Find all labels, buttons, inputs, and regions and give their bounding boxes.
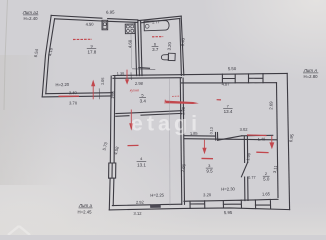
svg-text:2.69: 2.69 — [268, 101, 273, 110]
svg-text:кухня: кухня — [130, 88, 139, 92]
svg-text:3.4: 3.4 — [140, 98, 147, 103]
toilet — [168, 53, 175, 60]
svg-text:3.40: 3.40 — [69, 90, 78, 95]
main house right wall inner — [277, 83, 279, 198]
bathroom block left wall — [141, 21, 142, 76]
svg-text:Н=2.40: Н=2.40 — [24, 16, 39, 21]
annex a1 left wall outer — [42, 15, 51, 97]
main house left wall outer — [109, 76, 111, 210]
red arrow room2 (down) — [271, 136, 273, 143]
annex a1 left wall inner — [46, 19, 55, 94]
svg-text:3.7: 3.7 — [152, 47, 159, 52]
red arrow room3 (down) — [203, 140, 205, 148]
svg-text:5.95: 5.95 — [224, 210, 233, 215]
door leaf between room7 and room3 — [218, 136, 242, 140]
window W1 top wall — [222, 74, 235, 83]
svg-text:Лит А: Лит А — [303, 68, 318, 73]
svg-text:13.4: 13.4 — [224, 109, 233, 114]
svg-text:1.48: 1.48 — [258, 136, 266, 141]
svg-text:4.60: 4.60 — [127, 39, 132, 48]
annex a1 top wall outer — [51, 15, 138, 20]
svg-text:Н=2.25: Н=2.25 — [150, 192, 164, 197]
stove — [125, 24, 135, 34]
bathroom block right wall inner — [180, 19, 182, 76]
paper fold line left edge — [4, 0, 8, 110]
main house top wall inner right — [182, 82, 277, 84]
svg-text:3.20: 3.20 — [203, 192, 212, 197]
bottom window W4b — [255, 200, 270, 209]
annex a1 bottom wall inner — [46, 93, 112, 94]
annex a1 top wall inner — [55, 19, 138, 23]
dim tick line at bathroom left — [132, 68, 155, 71]
main house top wall inner left — [113, 77, 182, 80]
svg-text:Н=2.80: Н=2.80 — [304, 74, 319, 79]
bottom window W4 — [223, 200, 241, 208]
wall room3|room2 lower — [245, 177, 248, 201]
room7 bottom wall upper line — [185, 134, 273, 137]
svg-text:2.92: 2.92 — [136, 200, 145, 205]
svg-text:etagi: etagi — [131, 112, 201, 136]
svg-text:4.50: 4.50 — [86, 22, 95, 27]
bathtub — [144, 21, 169, 31]
svg-text:Н=2.45: Н=2.45 — [78, 209, 93, 214]
interior wall room5/room4 lower line — [116, 113, 182, 116]
bottom window W3 — [190, 201, 205, 208]
svg-text:3.20: 3.20 — [167, 41, 173, 50]
room7 bottom wall lower line — [185, 139, 277, 140]
svg-text:5.0: 5.0 — [263, 176, 270, 181]
red arrow room4 (down) — [130, 110, 132, 124]
red line below room3 arrow — [202, 157, 214, 159]
red dashes bathroom — [152, 36, 163, 38]
bathroom block right wall outer — [181, 16, 184, 75]
svg-text:3.12: 3.12 — [133, 211, 142, 216]
door leaf room3|room2 — [241, 162, 247, 176]
red arrow kitchen entrance (down) — [126, 70, 128, 80]
annex a1 right wall — [135, 20, 139, 76]
svg-text:3.02: 3.02 — [240, 127, 249, 132]
main house right wall outer — [287, 73, 289, 209]
svg-text:13.1: 13.1 — [137, 162, 146, 167]
bathroom bottom stub wall — [139, 67, 150, 70]
interior wall rooms5+4 | rooms7+3 line1 — [180, 78, 182, 204]
watermark diamond bottom-left — [8, 226, 30, 235]
svg-text:17.8: 17.8 — [88, 50, 97, 55]
red dash room2 — [256, 151, 268, 153]
room4 bottom wall inner — [112, 204, 181, 205]
svg-text:5.50: 5.50 — [228, 66, 237, 71]
svg-text:0.13: 0.13 — [209, 127, 213, 134]
red long line over wall room7 — [165, 101, 199, 104]
red dash above room7 label — [217, 99, 221, 101]
svg-text:Н=2.20: Н=2.20 — [55, 82, 69, 87]
svg-text:Лит а: Лит а — [78, 203, 93, 208]
bathroom block top wall inner — [141, 19, 180, 23]
red dash room4 — [128, 144, 139, 146]
svg-text:6.95: 6.95 — [106, 10, 115, 15]
boiler — [102, 20, 108, 30]
interior wall room5/room4 upper line — [116, 111, 182, 114]
svg-text:3.40: 3.40 — [180, 37, 186, 46]
wall room3|room2 upper — [244, 136, 247, 162]
paper crease vertical — [168, 78, 171, 206]
svg-text:Лит а1: Лит а1 — [22, 10, 39, 15]
svg-text:1.65: 1.65 — [262, 191, 271, 196]
red line on wall 1.48 — [247, 134, 267, 137]
svg-text:0.77: 0.77 — [248, 175, 256, 180]
window W5 left wall — [109, 163, 116, 178]
dim tick 4.60 line — [130, 25, 133, 68]
dim tick near annex arrow — [98, 89, 100, 99]
red arrow annex entrance (up) — [92, 86, 94, 100]
bathroom block top wall outer — [138, 16, 181, 21]
main house bottom wall inner — [184, 199, 278, 201]
red line on annex bottom wall — [59, 95, 80, 97]
main house top wall outer — [113, 73, 287, 75]
main house bottom wall outer — [109, 208, 289, 210]
svg-text:2.98: 2.98 — [135, 81, 144, 86]
svg-text:1.05: 1.05 — [100, 77, 105, 85]
svg-text:3.70: 3.70 — [69, 100, 78, 105]
dim tick near kitchen arrow — [130, 73, 132, 80]
svg-text:9.5: 9.5 — [206, 169, 213, 174]
annex a1 bottom wall outer — [42, 96, 112, 97]
svg-text:1.35: 1.35 — [117, 71, 125, 76]
svg-text:4.87: 4.87 — [222, 81, 231, 86]
svg-text:1.86: 1.86 — [110, 91, 115, 99]
red dashes room 9 — [73, 38, 92, 40]
svg-text:1.77: 1.77 — [152, 19, 161, 24]
interior wall rooms5+4 | rooms7+3 line2 — [183, 78, 184, 204]
svg-text:Н=2.30: Н=2.30 — [221, 186, 235, 191]
main house left wall inner — [113, 76, 115, 206]
door jamb pier 0.13 — [216, 133, 218, 141]
room4 door sill filled — [150, 204, 161, 208]
window W2 top wall — [249, 74, 264, 83]
